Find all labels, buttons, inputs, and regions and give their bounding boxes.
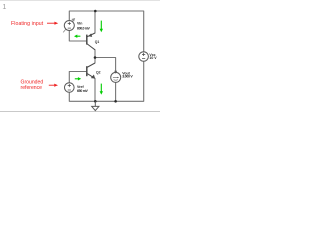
wire top rail Vin+ to Vcc+ <box>69 11 143 52</box>
svg-text:Vin: Vin <box>77 22 82 26</box>
wire node to Vout probe <box>95 58 116 72</box>
annotation arrow to Vref <box>49 84 58 87</box>
current arrow: Q1 base current (left) <box>74 35 80 38</box>
svg-text:600.0 mV: 600.0 mV <box>77 26 91 30</box>
wire Q1 collector to node <box>94 50 96 63</box>
svg-text:reference: reference <box>21 85 43 91</box>
voltage source Vref <box>65 83 75 93</box>
page separator bottom <box>0 111 160 113</box>
current arrow: Q1 emitter current (down) <box>100 21 103 33</box>
voltmeter probe Vout <box>111 71 121 83</box>
wires <box>69 11 143 101</box>
node junction dot top rail <box>94 10 97 13</box>
svg-text:3.000 V: 3.000 V <box>122 75 133 79</box>
wire Vin- to Q1 base <box>69 30 86 41</box>
annotation arrow to Vin <box>47 22 58 25</box>
svg-text:Q1: Q1 <box>95 40 100 44</box>
transistor Q2 (NPN) <box>87 63 95 79</box>
svg-text:650 mV: 650 mV <box>77 89 89 93</box>
voltage source Vcc <box>139 52 149 62</box>
current arrow: Q2 emitter current (down) <box>100 84 103 95</box>
svg-text:Floating input: Floating input <box>11 21 44 27</box>
wire Q2 emitter to ground rail <box>94 78 96 101</box>
node junction dot probe bottom <box>114 100 117 103</box>
wire rail to Q1 emitter <box>94 11 96 33</box>
svg-text:1: 1 <box>2 2 6 11</box>
wire Vout probe to bottom rail <box>115 83 117 102</box>
voltage source Vin <box>63 18 75 32</box>
transistor Q1 (PNP) <box>87 33 95 50</box>
svg-text:10 V: 10 V <box>149 56 157 60</box>
node junction dot ground rail <box>94 100 97 103</box>
ground <box>92 101 99 110</box>
svg-text:Q2: Q2 <box>96 71 101 75</box>
current arrow: Q2 base current (right) <box>75 77 81 80</box>
node junction dot Vout node <box>94 56 97 59</box>
wire bottom rail Vcc- to Vref- <box>69 61 143 101</box>
page top edge <box>0 0 160 2</box>
wire Q2 base to Vref+ <box>69 72 86 83</box>
